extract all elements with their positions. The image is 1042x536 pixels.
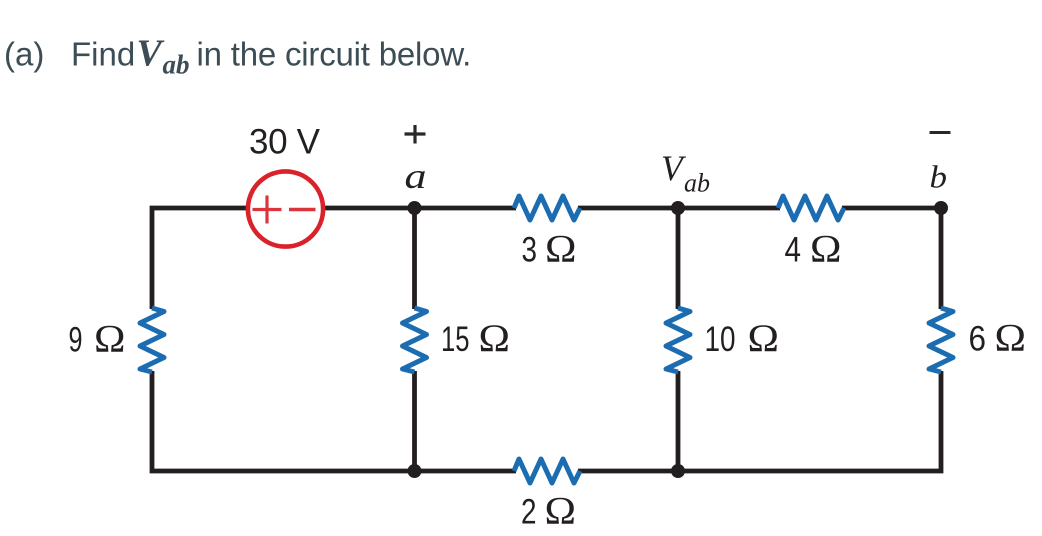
- node b junction dot: [934, 201, 948, 215]
- svg-text:in the circuit below.: in the circuit below.: [197, 36, 472, 73]
- resistor 15 ohm (vertical): [403, 308, 427, 372]
- resistor 2 ohm (bottom horizontal): [514, 459, 580, 483]
- svg-text:Ω: Ω: [995, 316, 1027, 360]
- svg-text:a: a: [405, 156, 427, 196]
- svg-text:Ω: Ω: [545, 489, 577, 533]
- svg-text:ab: ab: [163, 50, 190, 80]
- svg-text:9: 9: [69, 321, 83, 360]
- svg-text:3: 3: [522, 231, 538, 270]
- resistor 10 ohm (vertical): [666, 308, 690, 372]
- svg-text:6: 6: [969, 320, 987, 359]
- svg-text:Ω: Ω: [545, 227, 577, 271]
- svg-text:b: b: [930, 159, 948, 195]
- svg-text:V: V: [137, 33, 165, 75]
- wire: left rail top (voltage source left lead, top-left corner, down to 9-ohm): [152, 208, 252, 309]
- svg-text:(a): (a): [4, 36, 44, 73]
- svg-text:30 V: 30 V: [249, 123, 321, 162]
- wire: voltage source right lead to node a: [319, 206, 415, 211]
- voltage source minus terminal: [289, 208, 316, 211]
- wire: node Vab down to 10-ohm: [676, 208, 681, 309]
- wire: 9-ohm bottom lead, bottom-left corner, to 2-ohm left lead: [152, 371, 516, 471]
- svg-text:4: 4: [785, 231, 802, 270]
- voltage source plus terminal: [253, 196, 282, 224]
- wire: 4-ohm right lead to node b, corner down to 6-ohm: [842, 208, 941, 309]
- wire: node a down to 15-ohm: [412, 208, 417, 309]
- svg-text:ab: ab: [684, 169, 710, 198]
- resistor 9 ohm (left vertical): [140, 308, 164, 372]
- wire: node a to 3-ohm left lead: [415, 206, 517, 211]
- svg-text:Ω: Ω: [810, 227, 842, 271]
- svg-text:Ω: Ω: [94, 317, 126, 361]
- node Vab junction dot: [671, 201, 685, 215]
- svg-text:15: 15: [441, 320, 470, 359]
- resistor 6 ohm (right vertical): [929, 308, 953, 372]
- resistor 3 ohm (top horizontal): [514, 196, 580, 220]
- svg-text:2: 2: [521, 493, 537, 532]
- wire: 2-ohm right lead along bottom, bottom-right corner, up to 6-ohm: [578, 371, 941, 471]
- bottom junction dot below 10-ohm: [671, 464, 685, 478]
- wire: 3-ohm right lead to node Vab: [578, 206, 678, 211]
- resistor 4 ohm (top horizontal): [778, 196, 844, 220]
- svg-text:Find: Find: [71, 36, 135, 73]
- polarity plus sign above node a: [405, 125, 426, 144]
- node a junction dot: [408, 201, 422, 215]
- wire: 10-ohm bottom lead to bottom junction: [676, 371, 681, 471]
- wire: 15-ohm bottom lead to bottom junction: [412, 371, 417, 471]
- svg-text:10: 10: [705, 320, 736, 359]
- svg-text:Ω: Ω: [479, 316, 511, 360]
- wire: node Vab to 4-ohm left lead: [678, 206, 780, 211]
- svg-text:Ω: Ω: [748, 316, 780, 360]
- polarity minus sign above node b: [930, 131, 951, 134]
- bottom junction dot below 15-ohm: [408, 464, 422, 478]
- voltage source V1 30V circle: [248, 171, 323, 246]
